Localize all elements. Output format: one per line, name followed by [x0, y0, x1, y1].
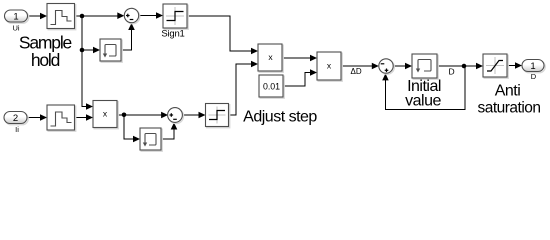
svg-text:Ui: Ui [12, 24, 19, 33]
svg-text:2: 2 [13, 113, 18, 124]
svg-text:hold: hold [31, 50, 60, 70]
svg-text:0.01: 0.01 [263, 81, 280, 91]
svg-text:D: D [531, 72, 537, 81]
svg-text:ΔD: ΔD [351, 67, 362, 76]
svg-text:value: value [405, 93, 441, 110]
svg-text:D: D [449, 66, 455, 76]
svg-text:1: 1 [530, 61, 535, 72]
svg-text:saturation: saturation [477, 100, 540, 117]
svg-text:Sign1: Sign1 [161, 29, 184, 40]
svg-text:Ii: Ii [15, 125, 19, 134]
svg-text:1: 1 [13, 11, 18, 22]
svg-text:Anti: Anti [495, 83, 521, 100]
svg-text:Adjust step: Adjust step [243, 109, 317, 126]
